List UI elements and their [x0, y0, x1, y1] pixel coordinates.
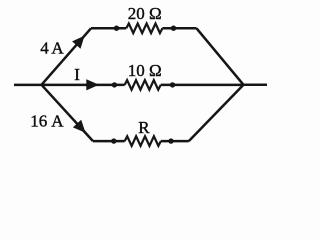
arrowhead current 4 A — [72, 36, 84, 49]
wire middle branch left segment — [42, 84, 125, 87]
svg-text:A: A — [51, 38, 64, 57]
wire right lead — [244, 84, 268, 87]
wire upper-left diagonal (junction to top branch) — [42, 28, 92, 85]
arrowhead current I — [86, 79, 99, 90]
resistor 10 ohm zigzag — [125, 80, 161, 90]
node dot bottom-right — [168, 138, 173, 143]
svg-text:R: R — [138, 118, 150, 137]
node dot middle-left — [112, 82, 117, 87]
node dot top-left — [114, 26, 119, 31]
wire middle branch right segment — [161, 84, 244, 87]
svg-text:I: I — [74, 65, 80, 84]
svg-text:A: A — [51, 112, 64, 131]
wire top branch right segment — [162, 27, 196, 30]
wire top branch left segment — [91, 27, 126, 30]
wire lower-right diagonal (bottom branch to right junction) — [189, 85, 244, 141]
wire lower-left diagonal (junction to bottom branch) — [42, 85, 94, 141]
node dot bottom-left — [111, 138, 116, 143]
wire bottom branch right segment — [161, 140, 189, 143]
svg-text:4: 4 — [40, 38, 49, 57]
node dot middle-right — [170, 82, 175, 87]
wire left lead — [14, 84, 42, 87]
svg-text:10 Ω: 10 Ω — [128, 61, 162, 80]
wire bottom branch left segment — [93, 140, 125, 143]
wire upper-right diagonal (top branch to right junction) — [197, 28, 244, 85]
svg-text:20 Ω: 20 Ω — [128, 4, 162, 23]
resistor 20 ohm zigzag — [126, 23, 162, 33]
svg-text:16: 16 — [30, 112, 47, 131]
resistor R zigzag — [125, 136, 161, 146]
arrowhead current 16 A — [73, 120, 86, 133]
node dot top-right — [171, 26, 176, 31]
